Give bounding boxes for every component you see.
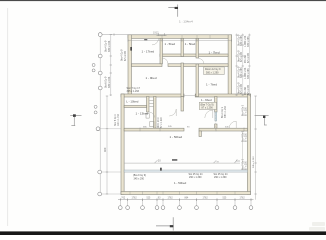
interior wall y128 left segment: [124, 128, 184, 131]
svg-text:1762: 1762: [203, 197, 209, 199]
left chain ticks upper: [110, 35, 112, 95]
svg-text:1 - 9bed: 1 - 9bed: [146, 76, 157, 80]
svg-text:1 - 6bed: 1 - 6bed: [201, 98, 212, 102]
svg-text:345 x 1.293: 345 x 1.293: [253, 156, 255, 168]
svg-text:345 x 1.290: 345 x 1.290: [225, 105, 227, 118]
door arc room A top: [152, 38, 159, 45]
exterior wall right lower: [247, 94, 250, 195]
left axis vertical line: [99, 35, 101, 194]
dashed door line x215: [215, 112, 217, 130]
axis line L10 to wall: [102, 193, 121, 195]
rotated text left wall outside upper: [121, 49, 127, 61]
dark lintel dash: [172, 159, 177, 160]
left chain line upper: [110, 35, 112, 96]
door arc corridor V3: [199, 59, 205, 65]
bottom dim line: [118, 199, 254, 201]
axis bubble B2: [126, 206, 130, 210]
interior wall stub x215: [215, 124, 217, 128]
dim texts on y128 wall: [143, 127, 229, 129]
fold mark left: [70, 115, 81, 126]
rotated text bra9 mid right: [221, 105, 227, 118]
axis bubble L3 small a: [92, 64, 95, 67]
svg-text:345 x 290: 345 x 290: [134, 178, 145, 181]
svg-text:87 x 1.290: 87 x 1.290: [161, 117, 163, 128]
rotated text right wall interior b: [242, 130, 248, 142]
exterior wall left upper: [128, 35, 132, 97]
fold mark left blob: [73, 114, 76, 117]
axis bubble L5: [98, 86, 102, 90]
axis bubble L10: [98, 192, 102, 196]
svg-text:L - 10bed: L - 10bed: [126, 99, 138, 103]
svg-text:345 x 293: 345 x 293: [240, 35, 243, 46]
svg-text:190 x 1.790: 190 x 1.790: [118, 113, 120, 126]
right chain line 3: [248, 34, 250, 97]
axis bubble L8: [96, 127, 100, 131]
right chain line 1: [236, 34, 238, 97]
top dim ticks: [128, 39, 232, 41]
watermark bottom right: [309, 222, 325, 231]
bottom dim texts: [121, 197, 245, 199]
interior wall H1 small room: [124, 106, 146, 108]
fold mark top blob: [175, 7, 178, 9]
svg-text:1762: 1762: [240, 197, 246, 199]
exterior wall bottom: [121, 192, 251, 195]
svg-text:345 x 293: 345 x 293: [240, 67, 243, 78]
interior wall V1: [160, 38, 163, 63]
axis bubble L6 small: [94, 105, 97, 108]
interior wall V4: [147, 97, 150, 113]
exterior wall top: [128, 35, 232, 39]
left faint page line: [6, 8, 9, 226]
svg-text:Bra 7 Gy 9: Bra 7 Gy 9: [242, 158, 245, 170]
boxed label bra7: [199, 102, 216, 109]
axis line L9 to wall: [102, 171, 121, 173]
rotated text left chain upper a: [105, 40, 111, 52]
exterior wall right upper: [228, 35, 232, 97]
ticks across bottom wall: [130, 191, 235, 195]
rotated text right wall interior c: [242, 158, 248, 170]
junction blob left wall: [130, 47, 132, 51]
svg-text:345 x 2.93: 345 x 2.93: [108, 40, 111, 52]
svg-text:290 x 1.390: 290 x 1.390: [189, 176, 202, 179]
door arc stair bottom: [149, 112, 155, 118]
axis bubble L9: [98, 170, 102, 174]
left chain line lower: [106, 96, 108, 194]
wc fixtures in shaft: [146, 101, 154, 127]
svg-text:400: 400: [103, 147, 107, 152]
exterior wall middle band: [121, 94, 184, 97]
svg-text:1 - 13bed: 1 - 13bed: [136, 112, 149, 116]
svg-text:87 x 2.90: 87 x 2.90: [247, 84, 250, 95]
interior wall y64 right segment: [168, 64, 228, 67]
axis bubble L2: [98, 54, 102, 58]
svg-text:Stor 8 Gy 9: Stor 8 Gy 9: [114, 114, 117, 126]
door opening line in middle band: [184, 94, 195, 96]
svg-text:1 - 50bed: 1 - 50bed: [170, 135, 183, 139]
door arc room right mid: [205, 110, 213, 118]
boxed label room12: [204, 67, 225, 75]
svg-text:87 x 2.90: 87 x 2.90: [240, 51, 243, 62]
interior partition line right of big room: [242, 131, 244, 170]
top border hairline: [0, 0, 326, 1]
interior wall V3 lower: [196, 64, 199, 97]
svg-text:87 x 290: 87 x 290: [246, 106, 248, 116]
svg-text:Bra 4 Gy 9: Bra 4 Gy 9: [242, 104, 245, 116]
interior wall V5: [154, 97, 157, 129]
bottom axis stems: [120, 200, 251, 206]
fold mark top: [168, 5, 177, 17]
svg-text:(Bra 9 Gy 9): (Bra 9 Gy 9): [133, 174, 146, 177]
svg-text:1 - 7bed: 1 - 7bed: [206, 83, 217, 87]
svg-text:1 - 5bed: 1 - 5bed: [165, 42, 176, 46]
bottom black bar: [0, 231, 326, 235]
svg-text:87 x 290: 87 x 290: [246, 132, 248, 142]
interior wall V7: [215, 97, 217, 113]
svg-text:290 x 1.390: 290 x 1.390: [214, 176, 227, 179]
axis bubble B5: [161, 206, 165, 210]
axis bubble B7: [195, 206, 199, 210]
right chain lower ticks: [254, 96, 256, 194]
axis bubble B8: [215, 206, 219, 210]
interior dim ticks on y128 wall: [140, 128, 244, 132]
dark tick top wall: [144, 39, 147, 40]
interior wall V2 upper: [181, 38, 184, 56]
svg-text:87 x 2.90: 87 x 2.90: [240, 83, 243, 94]
fold mark right: [255, 116, 269, 126]
rotated text left wall lower: [114, 113, 120, 126]
top dim line: [128, 39, 232, 41]
interior wall y128 right segment: [199, 128, 247, 131]
tick right on balcony line: [235, 159, 241, 163]
tick mid on balcony line: [214, 160, 219, 163]
rotated text left chain upper b: [105, 76, 111, 88]
svg-text:1 - 5bed: 1 - 5bed: [185, 42, 196, 46]
svg-text:87 x 2.90: 87 x 2.90: [247, 52, 250, 63]
interior wall V2 lower: [181, 63, 184, 97]
axis bubble L3 small b: [92, 69, 95, 72]
fold mark bottom: [156, 217, 173, 230]
axis bubble B4: [155, 206, 159, 210]
right chain line 2: [242, 34, 244, 97]
left chain lower ticks: [106, 96, 108, 194]
window band bottom of big room: [124, 170, 247, 172]
glazed door x215: [215, 112, 217, 121]
svg-text:345 x 293: 345 x 293: [247, 36, 250, 47]
svg-text:Wd 1 90.9: Wd 1 90.9: [158, 117, 160, 128]
rotated text right chain lower: [253, 156, 255, 168]
svg-text:345 x 1.293: 345 x 1.293: [127, 90, 140, 93]
svg-text:345 x 2.93: 345 x 2.93: [108, 76, 111, 88]
axis bubble B1: [118, 206, 122, 210]
svg-text:1 : 134m4: 1 : 134m4: [179, 20, 193, 24]
rotated text right chain a: [237, 34, 249, 95]
svg-text:1762: 1762: [168, 197, 174, 199]
axis bubble B10: [249, 206, 253, 210]
svg-text:87 x 2.90: 87 x 2.90: [124, 50, 127, 61]
interior wall y64 left segment: [132, 64, 163, 67]
svg-text:1 - 17bed: 1 - 17bed: [142, 49, 155, 53]
axis bubble L4: [98, 71, 102, 75]
fold mark bottom blob: [170, 225, 174, 227]
svg-text:1762: 1762: [132, 197, 138, 199]
svg-text:Bra 9 Gy 9: Bra 9 Gy 9: [221, 106, 224, 118]
exterior wall left lower: [121, 94, 124, 195]
door arc in y128 wall right: [229, 121, 236, 128]
fold mark right blob: [263, 116, 265, 118]
interior wall stub x200: [199, 131, 201, 137]
axis bubble B9: [233, 206, 237, 210]
left axis line top: [102, 34, 128, 36]
svg-text:87 x 1.290: 87 x 1.290: [202, 107, 214, 110]
interior wall y55: [160, 54, 228, 57]
axis bubble L7 small: [94, 111, 97, 114]
balcony line y163: [124, 162, 240, 164]
interior wall V6: [181, 97, 184, 112]
axis bubble B6: [178, 206, 182, 210]
svg-text:500 x 1.290: 500 x 1.290: [206, 72, 219, 75]
interior wall V3 upper: [196, 38, 199, 58]
tick 20 left on balcony line: [155, 160, 158, 163]
ticks across top wall: [162, 35, 210, 39]
svg-text:Bra 4 Gy 9: Bra 4 Gy 9: [242, 130, 245, 142]
small mark above top wall: [157, 33, 167, 35]
window post blob: [160, 168, 162, 171]
svg-text:1912: 1912: [153, 31, 159, 34]
svg-text:1 - 7bed: 1 - 7bed: [209, 50, 220, 54]
axis bubble L1: [98, 33, 102, 37]
bottom dim ticks: [120, 198, 251, 201]
svg-text:345 x 293: 345 x 293: [247, 68, 250, 79]
rotated text wd1 corridor: [158, 117, 163, 128]
axis line L8 to wall: [100, 128, 121, 130]
right chain line lower: [255, 96, 257, 200]
axis bubble B3: [141, 206, 145, 210]
svg-text:1 - 50bed: 1 - 50bed: [174, 181, 187, 185]
left axis tick: [113, 33, 115, 35]
svg-text:87 x 290: 87 x 290: [246, 160, 248, 170]
door arc room 13bed: [169, 109, 176, 116]
right chain ticks: [235, 35, 250, 95]
door arc wall y64: [162, 58, 168, 64]
rotated text right wall interior a: [242, 104, 248, 116]
exterior wall middle band right part: [195, 94, 250, 97]
